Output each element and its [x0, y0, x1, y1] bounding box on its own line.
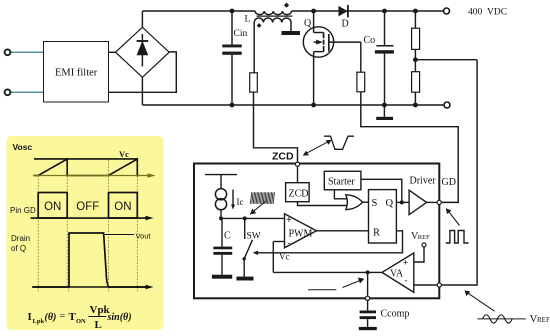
svg-text:ZCD: ZCD — [272, 151, 294, 163]
svg-text:GD: GD — [442, 177, 456, 188]
svg-text:L: L — [95, 319, 102, 331]
svg-text:OFF: OFF — [76, 201, 99, 213]
svg-text:Starter: Starter — [328, 177, 355, 188]
svg-text:Ccomp: Ccomp — [381, 309, 410, 320]
svg-text:Q: Q — [304, 18, 312, 29]
svg-text:D: D — [342, 19, 349, 30]
svg-text:I: I — [28, 311, 32, 323]
svg-text:sin(θ): sin(θ) — [107, 312, 132, 323]
svg-text:(θ): (θ) — [45, 312, 57, 323]
svg-text:-: - — [405, 276, 408, 286]
svg-text:400 VDC: 400 VDC — [468, 8, 507, 18]
svg-text:Drain: Drain — [11, 234, 30, 243]
svg-text:L: L — [245, 15, 251, 25]
svg-text:Q: Q — [386, 198, 394, 209]
svg-text:Pin GD: Pin GD — [10, 206, 36, 215]
svg-text:R: R — [373, 228, 380, 239]
svg-text:Vc: Vc — [119, 149, 129, 159]
svg-text:S: S — [372, 198, 378, 209]
svg-text:ON: ON — [44, 201, 61, 213]
svg-text:REF: REF — [537, 316, 550, 324]
svg-text:VA: VA — [390, 269, 404, 280]
svg-text:+: + — [403, 258, 408, 268]
svg-text:ON: ON — [76, 318, 86, 325]
svg-text:EMI filter: EMI filter — [55, 68, 98, 79]
svg-text:Vout: Vout — [136, 232, 152, 241]
svg-text:Lpk: Lpk — [33, 318, 45, 325]
svg-text:Cin: Cin — [234, 29, 248, 39]
svg-text:Vc: Vc — [279, 252, 290, 262]
svg-text:Driver: Driver — [410, 176, 437, 187]
svg-text:Vosc: Vosc — [13, 142, 33, 152]
svg-text:+: + — [286, 215, 292, 226]
svg-text:-: - — [288, 238, 291, 248]
svg-text:ON: ON — [114, 201, 131, 213]
svg-text:C: C — [224, 231, 231, 242]
svg-text:of Q: of Q — [11, 244, 26, 253]
svg-text:Co: Co — [364, 35, 376, 46]
svg-text:ZCD: ZCD — [289, 189, 309, 200]
svg-text:PWM: PWM — [289, 229, 313, 240]
svg-text:SW: SW — [247, 232, 261, 242]
svg-text:=: = — [60, 311, 66, 322]
svg-text:Ic: Ic — [237, 197, 244, 207]
svg-text:REF: REF — [418, 234, 430, 241]
